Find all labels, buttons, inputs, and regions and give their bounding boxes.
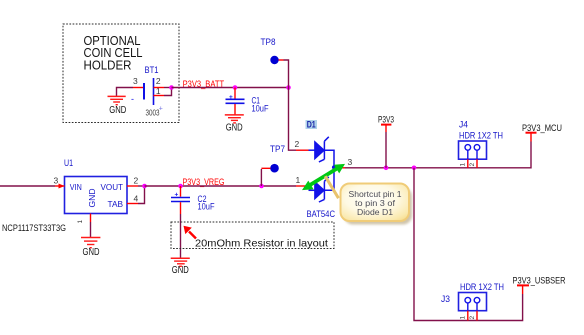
J4 pin 1 [467, 159, 469, 168]
battery BT1 [131, 65, 163, 118]
svg-text:TP8: TP8 [261, 37, 276, 48]
U1 pin numbers [54, 176, 139, 204]
J3 pin 2 [476, 311, 478, 321]
svg-text:+: + [175, 192, 179, 199]
diode D1 highlight [306, 120, 318, 129]
wire: U1 GND down [90, 222, 92, 238]
svg-text:3003: 3003 [146, 108, 160, 118]
svg-text:-: - [131, 94, 134, 104]
capacitor C1 [226, 88, 269, 115]
svg-text:10uF: 10uF [198, 202, 215, 212]
svg-text:1: 1 [460, 316, 467, 320]
D1 pin 1 stub [296, 185, 306, 187]
svg-text:VOUT: VOUT [101, 182, 124, 192]
svg-text:4: 4 [134, 193, 139, 203]
svg-text:10uF: 10uF [252, 103, 269, 113]
ground (C2) [171, 258, 190, 276]
svg-text:GND: GND [83, 247, 100, 258]
wire: P3V3_VREG rail [145, 185, 297, 187]
J4 pin 2 [476, 159, 478, 168]
J3 pin numbers [460, 316, 477, 320]
junction dot C1 [233, 85, 238, 90]
wire: input rail to U1 VIN [0, 185, 55, 187]
D1 pin numbers [295, 139, 353, 185]
svg-text:J4: J4 [459, 119, 468, 130]
svg-text:D1: D1 [307, 119, 317, 130]
svg-text:1: 1 [460, 163, 467, 167]
svg-text:HDR 1X2 TH: HDR 1X2 TH [460, 282, 504, 293]
svg-text:GND: GND [109, 105, 126, 116]
connector J4 [459, 119, 504, 159]
U1 TAB pin stub [127, 203, 138, 205]
svg-text:BAT54C: BAT54C [307, 209, 336, 220]
power port P3V3 [378, 114, 394, 132]
test point TP7 [261, 144, 285, 173]
regulator U1 [2, 158, 127, 233]
wire: VOUT to junction [138, 185, 145, 187]
D1 internal junction dot [332, 165, 336, 169]
wire: BT1 pin1 up to junction [164, 88, 172, 96]
svg-text:1: 1 [77, 220, 84, 224]
wire: P3V3 rail to P3V3_MCU [345, 142, 531, 168]
svg-text:NCP1117ST33T3G: NCP1117ST33T3G [2, 223, 66, 233]
ground (battery) [108, 96, 127, 116]
junction dot TP7 branch [259, 184, 264, 189]
svg-text:GND: GND [226, 122, 243, 133]
svg-text:2: 2 [295, 139, 300, 149]
BT1 pin numbers [133, 76, 161, 96]
svg-text:1: 1 [296, 175, 301, 185]
net label P3V3_MCU [522, 123, 562, 141]
svg-text:3: 3 [348, 157, 353, 167]
note green arrow: shortcut pin1 to pin3 [302, 164, 345, 190]
J4 pin numbers [460, 163, 477, 167]
J3 pin 1 [467, 311, 469, 321]
net label P3V3_USBSER [513, 276, 566, 294]
BT1 pin 3 stub [133, 87, 144, 89]
U1 VOUT pin stub [127, 185, 138, 187]
connector J3 [441, 282, 504, 311]
D1 pin 2 stub [296, 149, 309, 151]
capacitor C2 [171, 186, 215, 214]
test point TP8 [261, 37, 284, 64]
svg-text:3: 3 [133, 76, 138, 86]
wire: TP7 down to VREG rail [260, 169, 262, 186]
wire: P3V3_BATT rail [172, 87, 289, 89]
svg-text:TP7: TP7 [270, 144, 285, 155]
junction dot C2 [178, 184, 183, 189]
svg-text:HOLDER: HOLDER [84, 59, 132, 73]
svg-text:U1: U1 [64, 158, 73, 169]
svg-text:BT1: BT1 [145, 65, 159, 76]
wire: C2 down to GND [180, 214, 182, 258]
svg-text:2: 2 [134, 176, 139, 186]
junction dot J3 branch [412, 166, 417, 171]
svg-text:TAB: TAB [108, 199, 124, 209]
junction dot TP8 branch [286, 85, 291, 90]
svg-text:HDR 1X2 TH: HDR 1X2 TH [459, 130, 503, 141]
ground (U1) [81, 238, 100, 258]
wire: J3 branch down and right [414, 168, 523, 321]
BT1 pin 2 stub [154, 87, 165, 89]
svg-text:Diode D1: Diode D1 [357, 207, 393, 217]
wire: TP8 down to D1 pin 2 [284, 60, 297, 150]
svg-text:GND: GND [172, 265, 189, 276]
note box: OPTIONAL COIN CELL HOLDER [63, 24, 179, 123]
svg-text:3: 3 [54, 176, 59, 186]
svg-text:2: 2 [469, 316, 476, 320]
junction dot BT1 [169, 85, 174, 90]
ground (C1) [225, 115, 244, 133]
wire: BT1 pin2 to junction [164, 87, 172, 89]
BT1 pin 1 stub [154, 95, 165, 97]
note callout: Shortcut pin 1 to pin 3 of Diode D1 [325, 176, 412, 224]
svg-text:2: 2 [156, 76, 161, 86]
svg-text:2: 2 [469, 163, 476, 167]
U1 VIN pin stub [55, 185, 65, 187]
svg-text:+: + [159, 106, 163, 113]
junction dot P3V3 [384, 166, 389, 171]
svg-text:+: + [229, 94, 233, 101]
diode D1 (BAT54C dual schottky) [309, 137, 335, 202]
note box: 20mOhm resistor [171, 222, 334, 250]
svg-text:VIN: VIN [70, 182, 82, 192]
wire: TAB up to VOUT junction [138, 186, 145, 204]
U1 GND pin stub [90, 214, 92, 223]
junction dot VOUT/TAB [142, 184, 147, 189]
svg-text:GND: GND [87, 189, 97, 208]
wire: P3V3 port to rail [385, 132, 387, 168]
wire: battery GND to BT1 pin 3 [117, 88, 134, 97]
note arrow (red) [184, 226, 197, 239]
svg-text:20mOhm Resistor in layout: 20mOhm Resistor in layout [195, 238, 328, 250]
D1 pin 3 stub [336, 167, 345, 169]
svg-text:J3: J3 [441, 294, 450, 305]
